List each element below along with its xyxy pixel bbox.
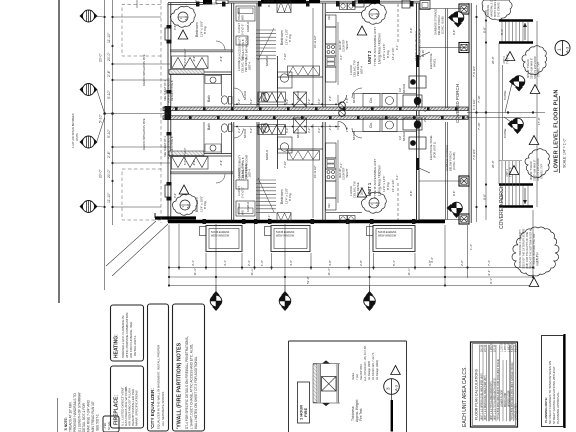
svg-text:1'-6": 1'-6" [345, 98, 349, 103]
cloud lower stairs note [525, 149, 550, 178]
svg-text:8' Clg: 8' Clg [386, 50, 390, 58]
room label bedroom2 lower [280, 188, 292, 204]
svg-text:8' Clg: 8' Clg [288, 193, 292, 201]
svg-text:3: 3 [386, 387, 391, 390]
svg-text:SEE 5/DT-1: SEE 5/DT-1 [96, 414, 100, 431]
svg-text:440 SF: 440 SF [516, 344, 518, 352]
top exterior wall heavy segment C [358, 0, 380, 4]
svg-text:8' Clg: 8' Clg [203, 26, 207, 34]
svg-text:Bath: Bath [207, 123, 211, 130]
svg-text:2'-6": 2'-6" [328, 125, 332, 130]
svg-text:W/D: W/D [241, 210, 245, 215]
kitchen counters lower (mirror) [326, 198, 337, 210]
sink lower bath1 [210, 145, 216, 151]
svg-text:5'-10": 5'-10" [107, 129, 111, 138]
svg-text:9'-8": 9'-8" [409, 191, 413, 196]
svg-text:7'-10": 7'-10" [477, 95, 481, 103]
right dim vertical lines [476, 5, 478, 222]
svg-text:Living Area / Kitchen: Living Area / Kitchen [378, 33, 382, 64]
svg-text:DETAILS TYPE B: DETAILS TYPE B [241, 157, 245, 178]
kitchen counters upper [326, 15, 337, 27]
svg-text:W/D: W/D [241, 15, 245, 20]
scattered small annotation labels lower band [234, 128, 406, 212]
porch notes lower [445, 145, 456, 171]
svg-text:BELOW PORCH: BELOW PORCH [437, 15, 441, 35]
svg-text:MAX RISE 7-3/4" AND: MAX RISE 7-3/4" AND [87, 399, 91, 432]
svg-text:L SHAFT, DUCT CHASE, ATTIC ACC: L SHAFT, DUCT CHASE, ATTIC ACCESS AND ET… [190, 344, 194, 429]
svg-text:EL 96": EL 96" [421, 49, 425, 57]
svg-text:8'-8": 8'-8" [452, 30, 456, 35]
exterior stairs lower (porch) [499, 161, 533, 207]
party wall studs [175, 107, 465, 119]
svg-text:2'-2": 2'-2" [307, 99, 311, 104]
svg-text:DT-4 FOR SPECIFIC DETAILS ON F: DT-4 FOR SPECIFIC DETAILS ON FIREWALL PE… [185, 336, 189, 429]
svg-text:6/DWL/2: 6/DWL/2 [265, 55, 269, 66]
stair note text block (cut at bottom edge) [64, 391, 100, 432]
svg-text:A-2: A-2 [375, 202, 379, 207]
interior vertical wall hall (double) [231, 3, 233, 107]
radon pipe labels left [71, 54, 174, 159]
1 HOUR FIRE label box [298, 382, 310, 423]
triangle below big cloud [529, 278, 539, 287]
svg-text:PANEL: PANEL [433, 58, 437, 67]
svg-text:20'-0": 20'-0" [107, 52, 111, 61]
svg-text:6/1PA/2: 6/1PA/2 [402, 131, 406, 141]
misc boxes near top rooms [236, 36, 248, 45]
dashed patio rect lower [122, 169, 161, 220]
svg-text:8 RISE: 8 RISE [503, 128, 507, 138]
svg-text:6/DWL/2: 6/DWL/2 [265, 149, 269, 160]
top wall thin run [228, 0, 420, 2]
svg-text:5'-2": 5'-2" [249, 128, 253, 133]
svg-text:11'-3": 11'-3" [327, 268, 331, 275]
bottom dim string 1 [169, 267, 533, 269]
stair enclosure walls [256, 3, 258, 107]
svg-text:RADON MITIGATION PIPE: RADON MITIGATION PIPE [142, 54, 146, 86]
svg-text:3'-3": 3'-3" [317, 99, 321, 104]
unit2 type B flag [505, 52, 515, 61]
right horizontal grid line at party wall [467, 112, 545, 114]
svg-text:UNITS: UNITS [75, 133, 79, 141]
svg-text:DETAIL 5/DT-1 FOR: DETAIL 5/DT-1 FOR [82, 402, 86, 432]
svg-text:6/1PA/2: 6/1PA/2 [296, 128, 300, 138]
svg-text:15'-11 1/2": 15'-11 1/2" [313, 35, 317, 48]
svg-text:9'-8": 9'-8" [409, 28, 413, 33]
grid bubble left B [80, 84, 98, 96]
svg-text:Clo.: Clo. [369, 122, 373, 128]
svg-text:3'-1": 3'-1" [339, 55, 343, 60]
svg-text:20'-0": 20'-0" [99, 53, 103, 62]
svg-text:2'-4": 2'-4" [107, 69, 111, 77]
bedroom1 closet lower (mirror) [172, 157, 209, 170]
svg-text:FIREPLACE:: FIREPLACE: [114, 395, 120, 425]
svg-text:'S NOTE:: 'S NOTE: [64, 417, 68, 431]
svg-text:Bedroom: Bedroom [195, 197, 199, 212]
svg-text:2'-6": 2'-6" [328, 96, 332, 101]
grid bubble left D [80, 201, 98, 213]
svg-text:LOWER FLOOR: LOWER FLOOR [502, 390, 504, 407]
svg-text:8'-1": 8'-1" [500, 29, 504, 35]
bath1 upper walls [203, 75, 205, 108]
svg-text:GUARDRAIL SUB PORCH: GUARDRAIL SUB PORCH [418, 29, 422, 60]
svg-text:STACKED: STACKED [237, 8, 241, 20]
svg-text:PER DETAIL: PER DETAIL [356, 61, 360, 76]
grid bubble left A [80, 10, 98, 22]
svg-text:51'-0": 51'-0" [306, 276, 310, 284]
interior dim texts rows near party wall [237, 96, 349, 133]
svg-text:11'-10": 11'-10" [107, 192, 111, 203]
entry door arcs lower [338, 122, 347, 131]
dashed roof overhang line left [160, 0, 162, 223]
svg-text:20'-0": 20'-0" [491, 56, 495, 64]
svg-text:UPPER FLOOR: UPPER FLOOR [509, 390, 511, 407]
svg-text:WDW WINDOW: WDW WINDOW [378, 234, 397, 237]
bottom dim texts [191, 244, 539, 284]
room label bedroom1 upper [195, 21, 207, 37]
svg-text:THE STAIRS: THE STAIRS [498, 2, 501, 17]
svg-text:20'-0": 20'-0" [107, 169, 111, 178]
porch interior lines upper [419, 8, 468, 10]
svg-text:STACKED: STACKED [237, 203, 241, 215]
svg-text:ALL SEPARATE SPACES: ALL SEPARATE SPACES [161, 392, 165, 426]
svg-text:5'-3": 5'-3" [285, 99, 289, 104]
svg-text:8'-1": 8'-1" [500, 194, 504, 200]
svg-text:'YWALL (FIRE PARTITION) NOTES: 'YWALL (FIRE PARTITION) NOTES [177, 342, 183, 429]
svg-text:MANF. SPECIFICATIONS: MANF. SPECIFICATIONS [135, 390, 139, 426]
svg-text:11'-10": 11'-10" [107, 32, 111, 43]
svg-text:BELOW PORCH: BELOW PORCH [449, 151, 453, 171]
interior horizontal walls lower unit (mirror) [170, 171, 233, 173]
svg-text:2'-2": 2'-2" [237, 128, 241, 133]
plumbing wall hatched strip lower [169, 151, 204, 156]
closet texts top [184, 23, 245, 198]
svg-text:(CONC. SLAB): (CONC. SLAB) [441, 16, 445, 34]
svg-text:6/1PA/2: 6/1PA/2 [243, 128, 247, 138]
svg-text:DETAIL 6/DT-1: DETAIL 6/DT-1 [133, 335, 137, 356]
bottom dim string 2 [169, 276, 533, 278]
svg-text:8'-1": 8'-1" [267, 215, 271, 220]
kitchen sink top wall [340, 3, 348, 10]
stacked W/D closet top wall [236, 6, 255, 21]
svg-text:HEIGHT: HEIGHT [346, 168, 349, 178]
bedroom1 upper cloud [170, 6, 195, 27]
svg-text:RISER, TYP: RISER, TYP [537, 252, 540, 266]
svg-text:2'-8": 2'-8" [359, 260, 363, 266]
living lower cloud [361, 192, 386, 213]
svg-text:UL Design U294): UL Design U294) [375, 360, 379, 380]
svg-text:MAIN FLOOR: MAIN FLOOR [504, 392, 507, 407]
AC pads at top wall [355, 0, 364, 7]
svg-text:GARBAGE STORAGE: GARBAGE STORAGE [434, 9, 438, 35]
porch notes upper [414, 9, 445, 61]
svg-text:-4'-9": -4'-9" [219, 160, 223, 166]
triangle above lower cloud [529, 136, 539, 145]
svg-text:6/1PA/2: 6/1PA/2 [402, 83, 406, 93]
svg-text:1/DWL/2: 1/DWL/2 [246, 21, 250, 32]
bottom extension lines from wall [168, 225, 170, 286]
svg-text:CEILING, TYP: CEILING, TYP [353, 60, 357, 77]
top exterior wall heavy segment B [261, 0, 306, 4]
egress box top [216, 0, 228, 4]
toilet lower bath1 [221, 124, 227, 132]
entry door arcs upper [338, 95, 347, 104]
kitchen sink bottom wall mirror [340, 216, 348, 223]
svg-text:990 SF: 990 SF [482, 344, 484, 352]
left dim texts [99, 32, 112, 203]
bath2 upper: vanity + toilet + shower [278, 72, 293, 88]
bath1 lower walls (mirror) [203, 122, 205, 154]
svg-text:STAIRS, TYP: STAIRS, TYP [538, 62, 541, 77]
leader diagonals bottom-left corner [112, 224, 168, 276]
svg-text:SCALE: 1/4" = 1'-0": SCALE: 1/4" = 1'-0" [563, 138, 567, 168]
right dim texts [472, 27, 541, 200]
cloud upper stairs note [522, 46, 547, 75]
svg-text:A-3: A-3 [565, 46, 570, 53]
dashed ceiling line near porch door [397, 4, 399, 42]
stacked W/D closet bottom wall [236, 201, 255, 216]
svg-text:8 RISE: 8 RISE [503, 90, 507, 100]
svg-text:SEE SHEET DT-1: SEE SHEET DT-1 [163, 80, 167, 101]
left dim string line [112, 0, 114, 225]
grid bubble right B [509, 76, 525, 92]
stud X box [322, 377, 337, 392]
window well left wall marks [165, 28, 171, 40]
right bubble leaders [505, 83, 512, 113]
svg-text:1/DWL/2: 1/DWL/2 [246, 201, 250, 212]
well labels [211, 231, 397, 237]
svg-text:A.A. #OSU14-67, -65, 9-17-65,: A.A. #OSU14-67, -65, 9-17-65, [363, 345, 367, 381]
svg-text:SEE SHEET DT-1: SEE SHEET DT-1 [163, 136, 167, 157]
bedroom2 closet zigzag lower [288, 151, 320, 161]
svg-text:5'-1": 5'-1" [392, 260, 396, 266]
svg-text:COVERED PORCH: COVERED PORCH [455, 84, 460, 123]
left dim extension lines [105, 113, 168, 115]
svg-text:UL Design U309: UL Design U309 [367, 361, 371, 380]
svg-text:8'-8": 8'-8" [483, 194, 487, 200]
svg-text:FOR ACCESSIBILITY: FOR ACCESSIBILITY [238, 154, 242, 180]
svg-text:4'-6": 4'-6" [289, 260, 293, 266]
svg-text:20'-0": 20'-0" [491, 160, 495, 168]
svg-text:9'-6": 9'-6" [173, 25, 177, 30]
svg-text:7'-4": 7'-4" [487, 260, 491, 266]
svg-text:WDW WINDOW: WDW WINDOW [276, 234, 295, 237]
svg-text:2'-8": 2'-8" [423, 107, 427, 112]
svg-text:COVERED PORCH: COVERED PORCH [499, 184, 505, 229]
svg-text:3'-1": 3'-1" [223, 260, 227, 266]
bottom exterior wall heavy [168, 220, 445, 224]
svg-text:Bedroom: Bedroom [280, 30, 284, 45]
svg-text:LOWER LEVEL FLOOR PLAN: LOWER LEVEL FLOOR PLAN [554, 89, 560, 172]
top wall heavy jamb [203, 0, 212, 5]
bedroom2 closet zigzag upper [288, 66, 320, 76]
top-right corner cloud (cut by edge) [482, 0, 512, 20]
svg-text:1'-4": 1'-4" [469, 244, 473, 250]
svg-text:Fire Test:: Fire Test: [359, 408, 363, 421]
unit right exterior wall (double) [416, 3, 418, 221]
scattered small annotation labels upper band [234, 21, 406, 103]
svg-text:EGRESS: EGRESS [206, 2, 218, 6]
svg-text:UNIT 1 & 2 TOTAL AREA (PER UNI: UNIT 1 & 2 TOTAL AREA (PER UNIT) [490, 381, 493, 420]
svg-text:RADON MITIGATION PIPE: RADON MITIGATION PIPE [142, 118, 146, 150]
svg-text:TYPE 'B': TYPE 'B' [507, 54, 510, 64]
svg-text:Varies: Varies [351, 372, 355, 380]
svg-text:FOR ACCESSIBILITY: FOR ACCESSIBILITY [167, 133, 171, 159]
svg-text:UNIT 1 & 2 TOTAL AREA (BOTH UN: UNIT 1 & 2 TOTAL AREA (BOTH UNITS) [494, 378, 497, 420]
svg-text:PLANNING APPROVAL.: PLANNING APPROVAL. [556, 391, 560, 424]
svg-text:(L) LENGTH OF STAIRWAY: (L) LENGTH OF STAIRWAY [78, 391, 82, 432]
svg-text:-9'-9": -9'-9" [192, 160, 196, 166]
wall section: gyp hatched strip [313, 364, 317, 403]
triangle below upper cloud [530, 85, 540, 94]
svg-text:...TER: ...TER [103, 423, 107, 430]
interior dim line bedroom2/kitchen upper [312, 8, 314, 105]
bath2 lower mirror [278, 137, 293, 153]
svg-text:8' Clg: 8' Clg [288, 34, 292, 42]
left overall grid line [104, 0, 106, 290]
bottom overall dim [169, 285, 533, 287]
W/D boxes upper/lower [382, 94, 397, 108]
svg-text:1M: 1M [398, 136, 402, 140]
svg-text:Bedroom: Bedroom [280, 189, 284, 204]
svg-text:Bedroom: Bedroom [195, 22, 199, 37]
svg-text:REF: REF [328, 203, 331, 208]
svg-text:20'-0": 20'-0" [99, 169, 103, 178]
revision triangles in plan [178, 30, 188, 39]
svg-text:MIN TREAD RUN 10": MIN TREAD RUN 10" [91, 401, 95, 432]
bedroom2/kitchen wall (double) [322, 3, 324, 107]
fire detail spec text [351, 345, 379, 422]
svg-text:GARAGE AREA: GARAGE AREA [515, 403, 518, 420]
top exterior wall heavy segment D [309, 0, 320, 3]
svg-text:6/1PA/2: 6/1PA/2 [352, 93, 356, 103]
svg-text:REF: REF [328, 15, 331, 20]
bubble stems bottom [215, 286, 217, 295]
svg-text:6/1PA/2: 6/1PA/2 [352, 130, 356, 140]
svg-text:6'-0"x5'-0"x2'-0": 6'-0"x5'-0"x2'-0" [184, 48, 187, 66]
svg-text:3'-4": 3'-4" [430, 257, 434, 263]
svg-text:2/DT-4: 2/DT-4 [248, 62, 252, 70]
svg-text:15'-11 1/2": 15'-11 1/2" [313, 165, 317, 178]
svg-text:Clo.: Clo. [369, 97, 373, 103]
svg-text:UNDER LEVEL 36" HIGH: UNDER LEVEL 36" HIGH [414, 31, 418, 61]
svg-text:HEATING:: HEATING: [114, 334, 120, 358]
closet row wall lines right wing [352, 93, 417, 95]
svg-text:TYPE 'B' ACCESSIBLE UNIT: TYPE 'B' ACCESSIBLE UNIT [373, 27, 377, 66]
egress dim top texts [173, 0, 274, 198]
svg-text:979 SF: 979 SF [485, 344, 487, 352]
svg-text:FLOOR PLAN CALCULATIONS: FLOOR PLAN CALCULATIONS [475, 368, 479, 420]
svg-text:A-2: A-2 [375, 13, 379, 18]
svg-text:WDW WINDOW: WDW WINDOW [211, 234, 230, 237]
svg-text:9'-4": 9'-4" [487, 270, 491, 276]
svg-text:UNIT 1: UNIT 1 [367, 182, 372, 196]
svg-text:1'-6": 1'-6" [260, 260, 264, 266]
CITY EQUALIZER note box [148, 304, 169, 431]
svg-text:STAIRS, TYP: STAIRS, TYP [541, 164, 544, 179]
svg-text:EGRESS: EGRESS [264, 0, 274, 3]
hall closet zigzag lower center [258, 125, 286, 135]
svg-text:2'-4": 2'-4" [107, 150, 111, 158]
svg-text:TOTAL BUILDING AREA PER FLOOR: TOTAL BUILDING AREA PER FLOOR (INCLUDES … [497, 359, 500, 420]
svg-text:1,958 SF: 1,958 SF [505, 342, 507, 352]
svg-text:9'-6": 9'-6" [173, 193, 177, 198]
svg-text:DETAILS TYPE B: DETAILS TYPE B [170, 136, 174, 157]
svg-text:4'-1": 4'-1" [395, 175, 399, 180]
living upper cloud [361, 3, 386, 24]
svg-text:EACH UNIT AREA CALCS.: EACH UNIT AREA CALCS. [462, 366, 468, 427]
unit1 label [367, 159, 395, 198]
closets Clo upper/lower [363, 94, 380, 108]
grid bubble right top porch [448, 12, 464, 28]
bottom wall step at left [155, 216, 196, 219]
grid bubble bottom 1 [210, 291, 222, 311]
grid bubble bottom 3 [364, 291, 376, 311]
svg-text:11'-1": 11'-1" [250, 268, 254, 275]
svg-text:6/1PA/2: 6/1PA/2 [296, 90, 300, 100]
svg-text:Bath: Bath [207, 95, 211, 102]
svg-text:5'-10": 5'-10" [107, 90, 111, 99]
svg-text:7'-10": 7'-10" [283, 53, 287, 60]
svg-text:GARBAGE STORAGE: GARBAGE STORAGE [445, 145, 449, 171]
HEATING note box [111, 305, 144, 361]
svg-text:6'-0"x5'-0"x2'-0": 6'-0"x5'-0"x2'-0" [184, 147, 187, 165]
laundry dark units at wall [403, 95, 422, 107]
svg-text:PER DETAIL: PER DETAIL [356, 182, 360, 197]
left exterior wall (double) [167, 3, 169, 222]
svg-text:5'-10": 5'-10" [99, 114, 103, 123]
interior horizontal walls upper unit [170, 49, 233, 51]
svg-text:1-HOUR: 1-HOUR [349, 186, 353, 196]
svg-text:1-HOUR: 1-HOUR [349, 65, 353, 75]
svg-text:1M: 1M [398, 88, 402, 92]
svg-text:7'-10": 7'-10" [283, 161, 287, 168]
grid bubble right C [508, 118, 524, 134]
svg-text:2/DT-4: 2/DT-4 [360, 187, 364, 195]
svg-text:TOTAL BUILDING AREA (INCLUDES: TOTAL BUILDING AREA (INCLUDES GARAGE SPA… [511, 362, 514, 420]
room label bedroom1 lower [195, 196, 207, 212]
kitchen labels [328, 15, 349, 208]
svg-text:See WP 3510: See WP 3510 [359, 363, 363, 380]
svg-text:8'-8": 8'-8" [483, 27, 487, 33]
svg-text:975 SF: 975 SF [495, 344, 497, 352]
svg-text:7 psf: 7 psf [355, 374, 359, 380]
svg-text:(FOR UNIT 1): (FOR UNIT 1) [433, 142, 437, 158]
svg-text:HEIGHT: HEIGHT [346, 40, 349, 50]
porch right edge (double) [468, 3, 470, 223]
svg-text:TYPE 'B': TYPE 'B' [510, 167, 513, 177]
end caps [313, 363, 340, 365]
bedroom1 lower cloud [172, 194, 197, 215]
svg-text:A-2: A-2 [184, 16, 188, 21]
svg-text:UL R1319-129, 7-22-70,: UL R1319-129, 7-22-70, [371, 352, 375, 380]
sheet left border line [58, 0, 60, 303]
top partial dim lines above plan cut by edge [136, 0, 138, 8]
svg-text:1'-4 1/2": 1'-4 1/2" [472, 99, 476, 110]
DRYWALL FIRE PARTITION NOTES box [173, 304, 205, 431]
porch WD hookup boxes [409, 76, 426, 88]
svg-text:2/DT-4: 2/DT-4 [360, 66, 364, 74]
sink upper bath1 [210, 77, 216, 83]
interior dim strings near party wall [234, 103, 340, 105]
sheet left border lower faint segment [57, 398, 59, 432]
svg-text:1'-6": 1'-6" [345, 127, 349, 132]
interior dim texts rooms [192, 2, 456, 220]
svg-text:1-1/2" AIR SPACE BETWEEN: 1-1/2" AIR SPACE BETWEEN [71, 113, 75, 148]
junction circles on party wall [339, 102, 346, 116]
svg-text:1: 1 [557, 48, 562, 51]
svg-text:16'-2 1/4": 16'-2 1/4" [391, 179, 395, 192]
svg-text:9'-1": 9'-1" [489, 278, 493, 284]
